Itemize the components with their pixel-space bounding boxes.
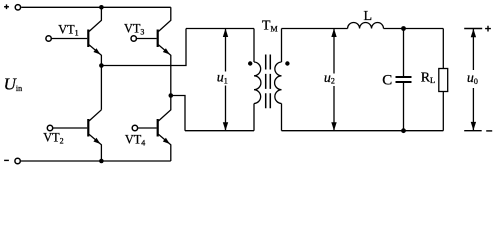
wire u1 loop top	[186, 28, 254, 30]
node: capacitor bottom junction dot	[401, 128, 406, 133]
wire top rail	[21, 6, 171, 8]
inductor L	[348, 23, 384, 29]
wire top rail after L	[384, 28, 444, 30]
transistor VT1	[46, 7, 102, 65]
node: VT2 emitter junction dot	[99, 159, 104, 164]
label - (output)	[486, 130, 492, 132]
output tick bottom	[464, 130, 482, 132]
label - (input bottom)	[4, 159, 9, 161]
svg-text:TM: TM	[262, 18, 278, 33]
svg-text:VT1: VT1	[58, 23, 78, 38]
node: VT1 collector junction dot	[99, 5, 104, 10]
wire secondary bottom rail	[282, 130, 444, 132]
svg-text:u0: u0	[467, 71, 478, 86]
capacitor C	[396, 29, 412, 131]
voltage arrow u2	[331, 29, 336, 131]
input terminal circle top	[15, 5, 20, 10]
label + (input top)	[4, 4, 9, 9]
svg-text:C: C	[382, 72, 392, 88]
transformer polarity dot secondary	[285, 61, 289, 65]
svg-text:VT4: VT4	[125, 133, 145, 148]
resistor RL	[439, 29, 448, 131]
transistor VT3	[131, 7, 171, 95]
svg-text:u2: u2	[324, 71, 335, 86]
label + (output)	[485, 26, 491, 32]
svg-text:RL: RL	[421, 70, 436, 85]
transistor VT2	[47, 110, 101, 161]
transformer TM secondary winding	[275, 29, 282, 131]
transformer polarity dot primary	[248, 61, 252, 65]
node: right leg midpoint dot	[169, 93, 174, 98]
svg-text:L: L	[364, 9, 373, 24]
svg-text:Uin: Uin	[4, 74, 23, 93]
wire secondary top rail	[282, 28, 348, 30]
wire bridge output A to primary top	[101, 29, 186, 66]
voltage arrow u1	[223, 29, 228, 131]
node: capacitor top junction dot	[401, 26, 406, 31]
wire left leg middle	[100, 66, 102, 110]
wire u1 loop bottom	[185, 130, 254, 132]
svg-text:VT2: VT2	[43, 131, 63, 146]
output tick top	[464, 28, 482, 30]
node: left leg midpoint dot	[99, 63, 104, 68]
svg-text:VT3: VT3	[124, 22, 144, 37]
wire bottom rail	[21, 160, 171, 162]
wire bridge output B to primary bottom	[171, 96, 185, 131]
transistor VT4	[132, 96, 171, 162]
svg-text:u1: u1	[217, 71, 228, 86]
transformer TM primary winding	[254, 29, 261, 131]
input terminal circle bottom	[15, 158, 20, 163]
voltage arrow u0	[471, 29, 476, 131]
transformer core	[266, 55, 271, 109]
